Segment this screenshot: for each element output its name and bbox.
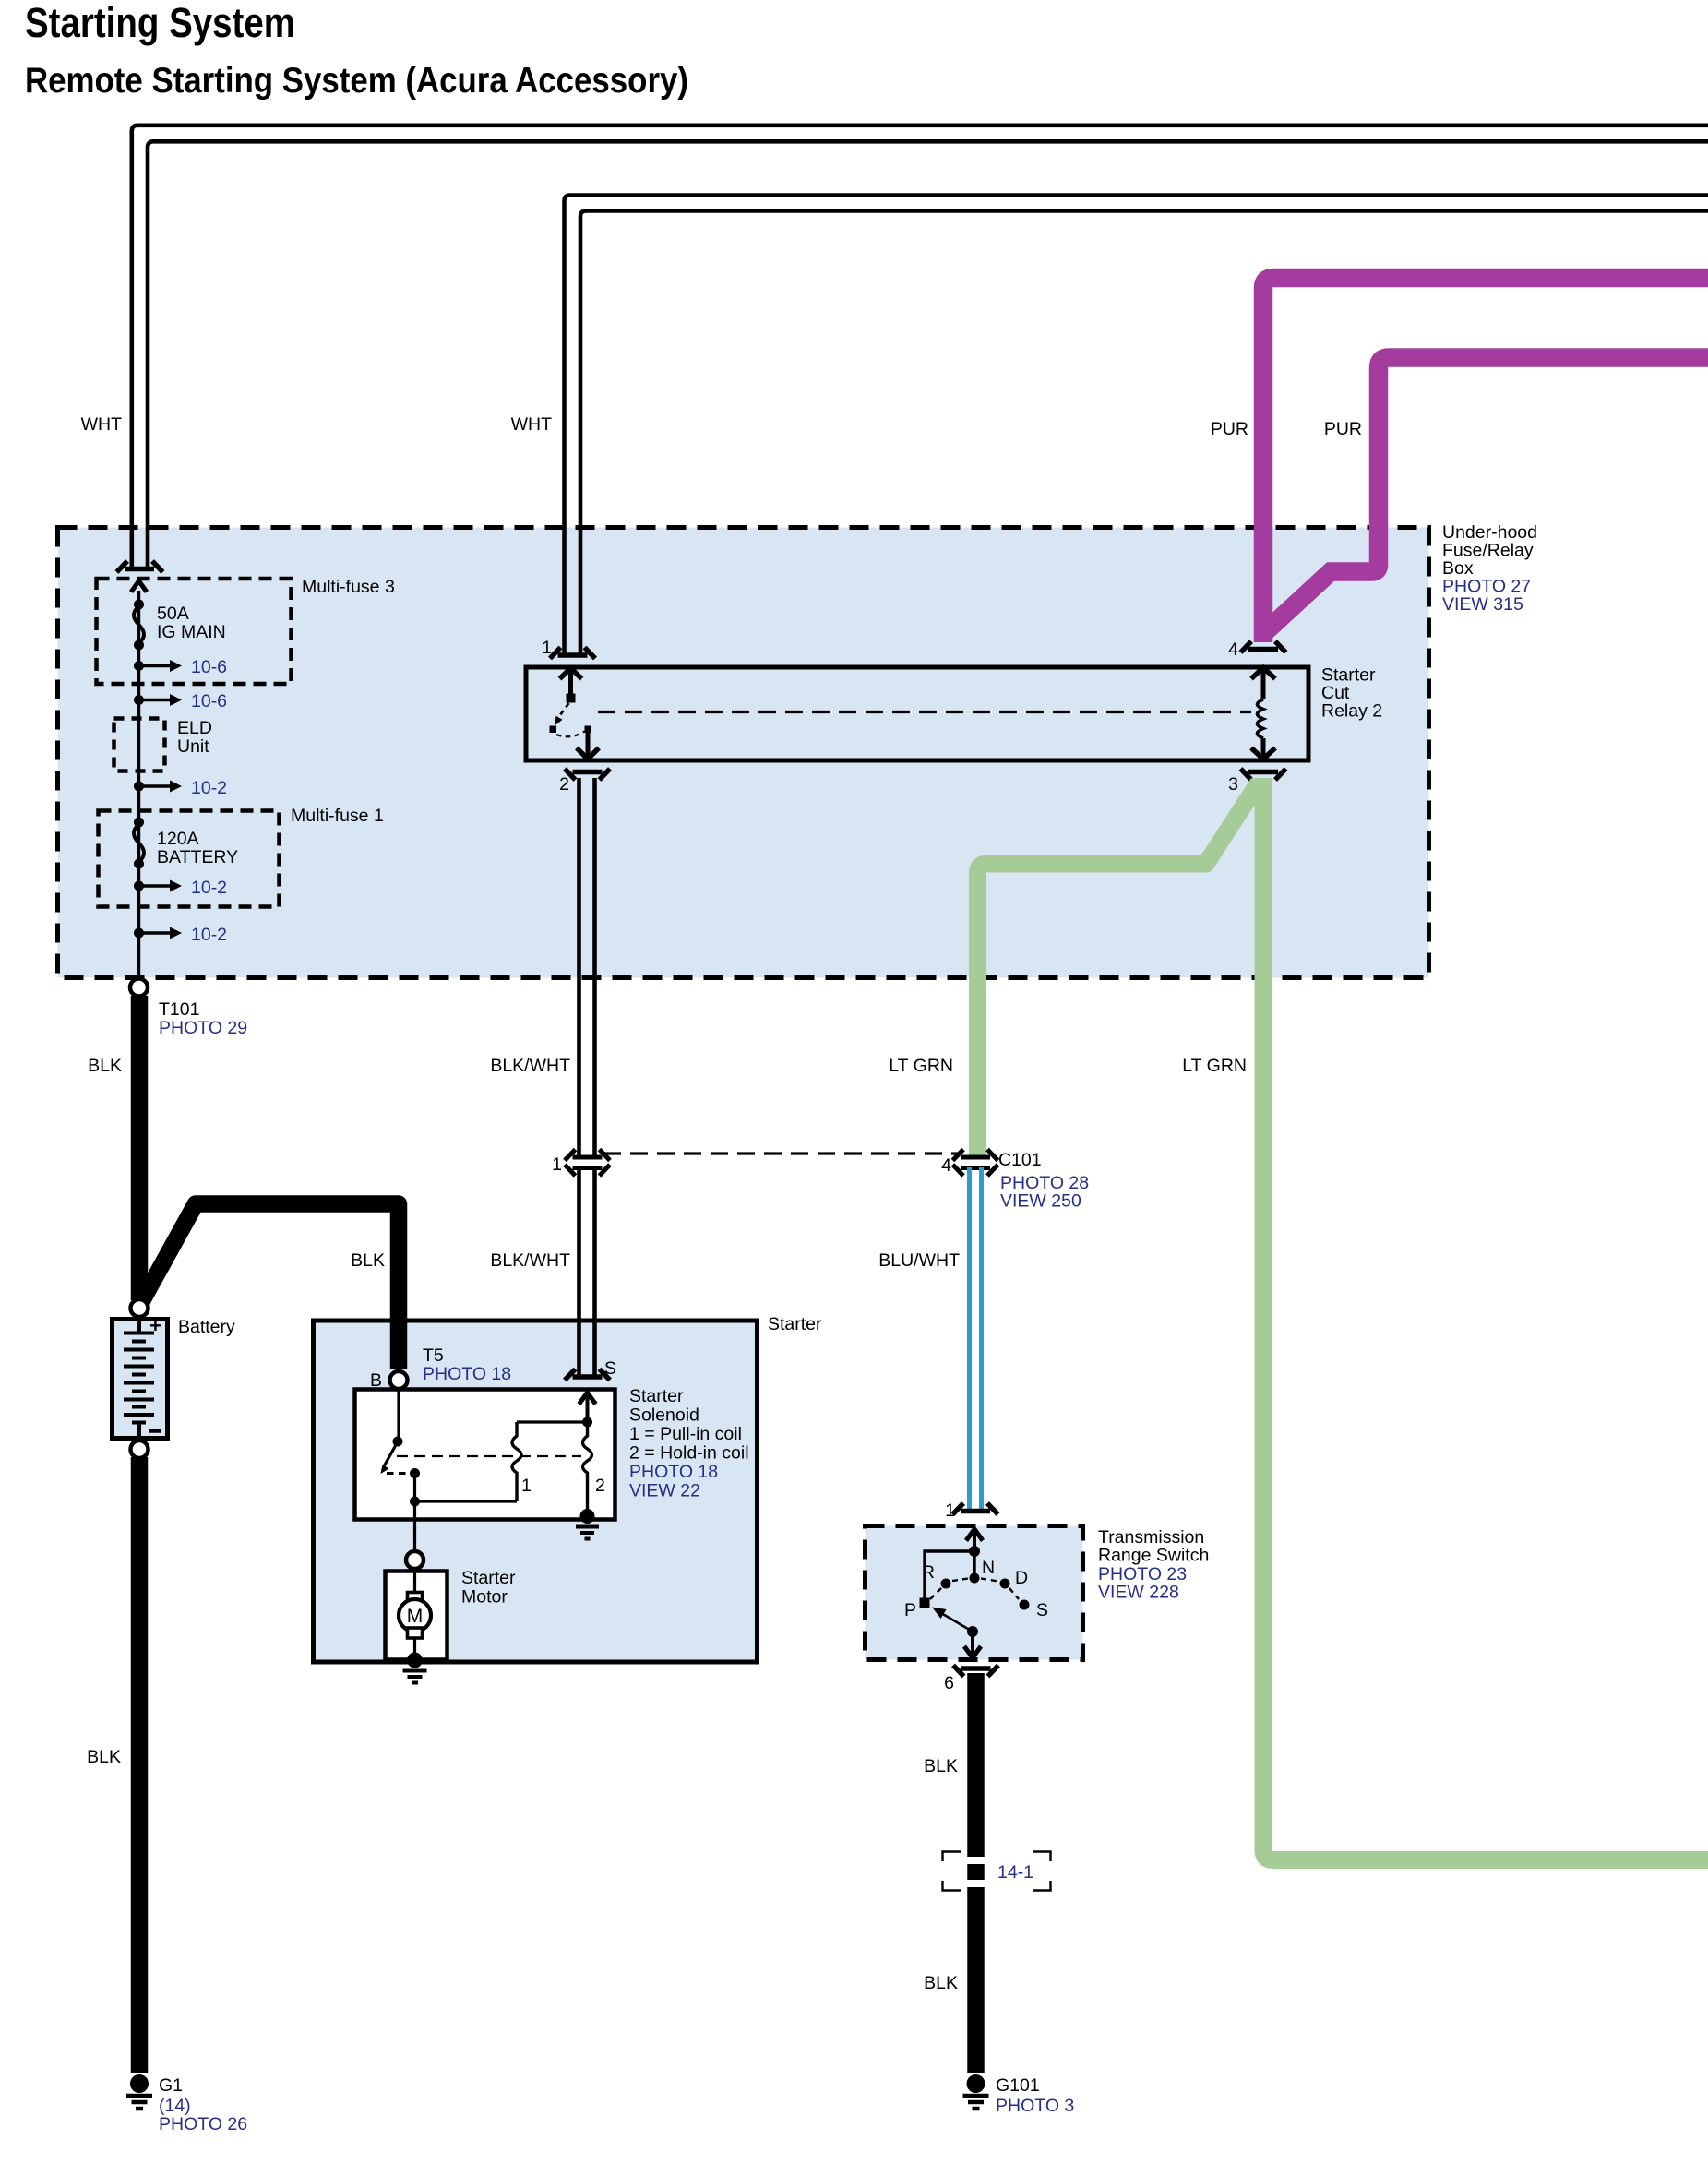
svg-text:VIEW 228: VIEW 228 xyxy=(1098,1583,1179,1603)
svg-text:Starting System: Starting System xyxy=(25,0,295,46)
svg-text:Starter: Starter xyxy=(461,1568,516,1588)
svg-text:D: D xyxy=(1015,1568,1028,1588)
transmission range switch labels xyxy=(1098,1527,1209,1603)
svg-text:(14): (14) xyxy=(159,2096,191,2116)
solenoid internal ground xyxy=(576,1509,599,1539)
svg-text:Motor: Motor xyxy=(461,1587,508,1608)
relay pin 2 terminal xyxy=(565,769,610,780)
TRS input arrow xyxy=(966,1529,983,1551)
branch arrow to 10-6 (below multi-fuse 3) xyxy=(134,691,227,711)
svg-text:N: N xyxy=(982,1558,995,1578)
TRS contact S xyxy=(1020,1600,1030,1610)
svg-text:LT GRN: LT GRN xyxy=(1182,1056,1247,1076)
svg-text:10-6: 10-6 xyxy=(191,657,227,677)
wire LT GRN (relay pin 3 to C101) xyxy=(978,783,1260,1156)
wire PUR 2 xyxy=(1266,358,1708,632)
svg-text:BLK: BLK xyxy=(351,1250,385,1271)
arrow into multi-fuse 3 xyxy=(131,581,147,592)
svg-text:4: 4 xyxy=(941,1155,951,1176)
starter motor terminal node xyxy=(406,1551,424,1569)
svg-text:M: M xyxy=(407,1606,424,1627)
node T101 xyxy=(130,979,247,1039)
wire BLK (TRS pin 6 to 14-1) xyxy=(967,1673,985,1857)
TRS contact N xyxy=(970,1573,980,1584)
starter motor label xyxy=(461,1568,516,1608)
svg-text:1: 1 xyxy=(521,1476,532,1496)
wire BLU/WHT (C101 to transmission range switch) xyxy=(970,1167,982,1511)
svg-text:1: 1 xyxy=(945,1500,955,1521)
svg-text:10-6: 10-6 xyxy=(191,691,227,711)
svg-text:PHOTO 26: PHOTO 26 xyxy=(159,2114,247,2134)
fuse 50A IG MAIN xyxy=(134,600,226,651)
svg-text:BLU/WHT: BLU/WHT xyxy=(878,1250,960,1271)
svg-text:Multi-fuse 3: Multi-fuse 3 xyxy=(302,577,395,597)
svg-text:120A: 120A xyxy=(157,829,199,849)
svg-text:S: S xyxy=(604,1358,616,1379)
connector C101 labels xyxy=(941,1150,1089,1212)
svg-text:VIEW 315: VIEW 315 xyxy=(1442,594,1523,615)
svg-text:PHOTO 3: PHOTO 3 xyxy=(996,2096,1074,2116)
wire BLK branch (battery + to starter B) xyxy=(139,1204,399,1370)
svg-text:BLK/WHT: BLK/WHT xyxy=(490,1056,570,1076)
TRS contact P xyxy=(920,1598,930,1608)
svg-text:2: 2 xyxy=(559,774,569,795)
relay pin 4 terminal xyxy=(1241,641,1286,652)
battery polarity marks xyxy=(149,1314,161,1431)
fuse 120A BATTERY xyxy=(134,818,238,869)
solenoid switch from B xyxy=(381,1389,518,1507)
wire PUR 1 xyxy=(1263,278,1708,642)
node T5 / terminal B xyxy=(370,1345,511,1391)
battery cell plates xyxy=(124,1317,154,1439)
wire WHT 2 (second white wire, outlined) xyxy=(565,196,1708,654)
starter motor box xyxy=(386,1572,448,1660)
svg-text:S: S xyxy=(1036,1600,1048,1620)
coil 1 (pull-in) xyxy=(512,1422,532,1501)
branch arrow to 10-2 (below ELD) xyxy=(134,778,227,798)
branch arrow to 10-6 (inside multi-fuse 3) xyxy=(134,657,227,677)
svg-text:Starter: Starter xyxy=(768,1314,822,1334)
svg-text:BLK: BLK xyxy=(924,1973,958,1993)
under-hood fuse/relay box label xyxy=(1442,522,1537,615)
solenoid junction node (coil top) xyxy=(582,1417,592,1428)
battery + terminal node xyxy=(131,1299,149,1317)
svg-text:PUR: PUR xyxy=(1324,419,1362,439)
relay pin 1 terminal xyxy=(550,648,595,659)
svg-text:Range Switch: Range Switch xyxy=(1098,1546,1209,1566)
relay contact arrow (pin 1 side) xyxy=(560,668,582,703)
svg-text:PUR: PUR xyxy=(1211,419,1248,439)
svg-text:PHOTO 29: PHOTO 29 xyxy=(159,1018,247,1038)
relay coil xyxy=(1251,668,1275,759)
connector 14-1 xyxy=(943,1852,1051,1891)
TRS contact D xyxy=(1000,1579,1010,1589)
relay switch arm (dashed, to contact) xyxy=(550,703,592,736)
branch arrow to 10-2 (inside multi-fuse 1) xyxy=(134,878,227,898)
svg-text:WHT: WHT xyxy=(81,414,122,435)
svg-text:1: 1 xyxy=(542,638,552,658)
svg-text:ELD: ELD xyxy=(177,718,212,738)
svg-text:10-2: 10-2 xyxy=(191,778,227,798)
wire WHT 1 (left white wire, outlined) xyxy=(132,126,1708,568)
svg-text:G1: G1 xyxy=(159,2075,183,2096)
svg-text:Relay 2: Relay 2 xyxy=(1321,701,1382,722)
under-hood fuse/relay box xyxy=(58,528,1429,978)
relay pin 3 terminal xyxy=(1241,769,1286,780)
svg-text:3: 3 xyxy=(1228,774,1238,795)
branch arrow to 10-2 (below multi-fuse 1) xyxy=(134,925,227,945)
svg-text:PHOTO 18: PHOTO 18 xyxy=(629,1462,718,1482)
svg-text:+: + xyxy=(149,1314,161,1337)
TRS contact R xyxy=(941,1579,951,1589)
wire LT GRN (relay pin 3 down and right, off page) xyxy=(1263,778,1708,1860)
starter box xyxy=(314,1314,823,1662)
solenoid S arrow xyxy=(579,1393,596,1422)
svg-text:Unit: Unit xyxy=(177,736,209,757)
svg-text:10-2: 10-2 xyxy=(191,878,227,898)
svg-text:Battery: Battery xyxy=(178,1317,235,1337)
svg-text:R: R xyxy=(922,1562,935,1583)
svg-text:WHT: WHT xyxy=(511,414,552,435)
wire BLK (T101 to battery) xyxy=(131,996,149,1300)
starter solenoid box xyxy=(355,1390,615,1520)
wire BLK (battery to G1) xyxy=(131,1457,149,2073)
svg-text:14-1: 14-1 xyxy=(997,1862,1033,1883)
wire coil-top link xyxy=(517,1420,588,1423)
wire BLK (14-1 to G101) xyxy=(967,1887,985,2073)
TRS pin 1 terminal xyxy=(953,1503,998,1514)
coil 2 (hold-in) xyxy=(583,1422,605,1514)
svg-text:IG MAIN: IG MAIN xyxy=(157,622,226,642)
svg-text:10-2: 10-2 xyxy=(191,925,227,945)
svg-text:P: P xyxy=(904,1600,916,1620)
dashed link line connector 1 to C101 xyxy=(603,1152,958,1154)
svg-text:4: 4 xyxy=(1228,640,1238,660)
TRS selector arm xyxy=(932,1608,973,1632)
svg-text:C101: C101 xyxy=(998,1150,1042,1170)
terminal S xyxy=(565,1369,610,1381)
wire BLK/WHT (connector 1 to starter S) xyxy=(579,1167,595,1375)
svg-text:BLK: BLK xyxy=(88,1056,122,1076)
svg-text:BLK: BLK xyxy=(924,1756,958,1776)
battery - terminal node xyxy=(131,1441,149,1458)
svg-text:1 = Pull-in coil: 1 = Pull-in coil xyxy=(629,1424,742,1444)
ground G1 xyxy=(126,2074,247,2134)
svg-text:BATTERY: BATTERY xyxy=(157,847,238,867)
starter motor ground xyxy=(403,1653,427,1683)
svg-text:LT GRN: LT GRN xyxy=(889,1056,953,1076)
starter motor symbol M xyxy=(399,1569,431,1658)
TRS wire to N contact xyxy=(973,1551,975,1576)
wire solenoid contact to starter motor xyxy=(413,1506,416,1551)
svg-text:T5: T5 xyxy=(423,1345,444,1366)
TRS dashed contact arc xyxy=(930,1579,1019,1600)
starter cut relay 2 body xyxy=(526,667,1308,760)
svg-text:Multi-fuse 1: Multi-fuse 1 xyxy=(291,806,384,826)
TRS junction node xyxy=(969,1546,980,1557)
svg-text:PHOTO 18: PHOTO 18 xyxy=(423,1364,511,1384)
svg-text:Solenoid: Solenoid xyxy=(629,1405,699,1426)
solenoid dashed link line xyxy=(397,1455,581,1457)
TRS contact labels xyxy=(904,1558,1048,1620)
svg-text:Remote Starting System (Acura: Remote Starting System (Acura Accessory) xyxy=(25,61,688,101)
svg-text:2 = Hold-in coil: 2 = Hold-in coil xyxy=(629,1443,749,1464)
svg-text:BLK: BLK xyxy=(87,1747,121,1767)
transmission range switch box xyxy=(866,1526,1083,1660)
svg-text:T101: T101 xyxy=(159,999,199,1020)
svg-text:Starter: Starter xyxy=(629,1386,684,1406)
bus wire through fuse box xyxy=(137,591,140,980)
multi-fuse 1 box xyxy=(99,811,280,907)
svg-text:VIEW 250: VIEW 250 xyxy=(1000,1191,1081,1212)
svg-text:6: 6 xyxy=(944,1673,954,1693)
TRS wire to P contact xyxy=(925,1551,974,1601)
svg-text:2: 2 xyxy=(595,1476,605,1496)
wire WHT 1 end terminal at Multi-fuse 3 xyxy=(117,561,163,572)
TRS pivot node and output arrow xyxy=(964,1626,981,1658)
relay contact to pin 2 arrow xyxy=(577,732,599,759)
wire BLK/WHT (relay pin 2 to connector 1) xyxy=(579,778,595,1157)
battery box xyxy=(113,1317,236,1439)
multi-fuse 3 box xyxy=(97,579,292,684)
connector 1 (BLK/WHT inline) xyxy=(565,1150,610,1177)
svg-text:VIEW 22: VIEW 22 xyxy=(629,1481,700,1501)
starter solenoid labels xyxy=(629,1386,749,1501)
starter cut relay 2 label xyxy=(1321,665,1382,722)
relay internal dashed link line xyxy=(598,711,1251,713)
svg-text:50A: 50A xyxy=(157,604,189,624)
ELD unit box xyxy=(114,718,212,771)
svg-text:G101: G101 xyxy=(996,2075,1040,2096)
svg-text:BLK/WHT: BLK/WHT xyxy=(490,1250,570,1271)
TRS pin 6 terminal xyxy=(953,1666,998,1677)
connector C101 xyxy=(953,1150,998,1177)
svg-text:1: 1 xyxy=(552,1154,562,1175)
ground G101 xyxy=(963,2074,1075,2116)
